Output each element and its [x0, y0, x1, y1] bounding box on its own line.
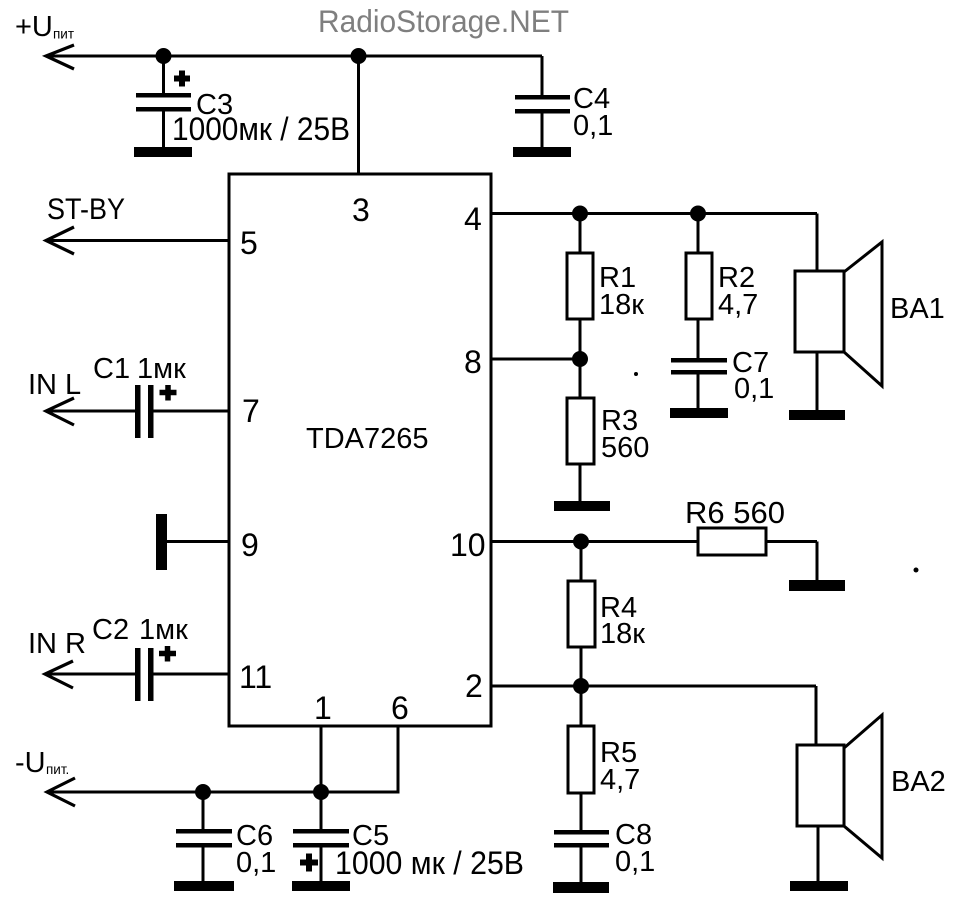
node junction dot C6 [195, 784, 211, 800]
ground C3 [134, 147, 192, 157]
svg-text:6: 6 [391, 690, 409, 726]
svg-text:1000 мк / 25В: 1000 мк / 25В [335, 845, 524, 881]
wire pin 1 vertical [320, 726, 323, 792]
node junction dot pin3 [351, 48, 367, 64]
svg-text:BA1: BA1 [890, 293, 945, 325]
wire pin 8 [491, 358, 580, 361]
speaker BA1 [795, 242, 882, 410]
arrow ST-BY [46, 227, 74, 254]
op-amp U1 TDA7265 body [229, 174, 491, 726]
svg-text:-U: -U [15, 747, 46, 779]
svg-text:R6 560: R6 560 [685, 495, 785, 530]
svg-text:C1: C1 [93, 353, 130, 385]
capacitor C5 [293, 792, 349, 881]
resistor R1 [567, 214, 593, 360]
node junction dot R1 top [572, 206, 588, 222]
svg-text:4,7: 4,7 [718, 289, 758, 321]
svg-text:BA2: BA2 [891, 766, 946, 798]
ground C5 [292, 881, 350, 891]
capacitor C1 [46, 385, 229, 438]
svg-text:18к: 18к [600, 618, 645, 650]
svg-text:1000мк / 25В: 1000мк / 25В [172, 111, 350, 147]
pin 9 stub bar [156, 514, 167, 570]
resistor R6 [698, 528, 817, 580]
svg-text:0,1: 0,1 [236, 847, 276, 879]
svg-text:0,1: 0,1 [615, 846, 655, 878]
node junction dot pin1 [313, 784, 329, 800]
svg-text:10: 10 [450, 527, 486, 563]
speaker BA2 [797, 715, 882, 881]
node junction dot R2 top [690, 206, 706, 222]
ground R6 [789, 580, 845, 591]
wire bottom rail [47, 791, 400, 794]
ground C6 [174, 881, 234, 891]
wire C4 drop [541, 56, 544, 95]
svg-text:560: 560 [601, 432, 649, 464]
arrow IN R [45, 661, 73, 688]
speck dot center [634, 372, 638, 376]
capacitor C8 [554, 830, 609, 882]
svg-text:4: 4 [464, 201, 482, 237]
svg-text:C2: C2 [92, 614, 129, 646]
arrow IN L [46, 398, 74, 425]
capacitor C2 [45, 646, 229, 701]
svg-text:4,7: 4,7 [600, 764, 640, 796]
capacitor C3 [136, 56, 191, 147]
svg-text:TDA7265: TDA7265 [306, 423, 429, 455]
arrow +Upit [46, 45, 74, 69]
node junction dot C3 [156, 48, 172, 64]
ground BA1 [789, 410, 845, 420]
resistor R3 [567, 359, 594, 501]
node junction dot pin10 [573, 534, 589, 550]
svg-text:1: 1 [314, 690, 332, 726]
node -Upit label [15, 747, 69, 779]
capacitor C7 [671, 358, 727, 408]
node +Upit label [15, 11, 74, 43]
svg-text:7: 7 [242, 393, 260, 429]
wire top rail [46, 55, 542, 58]
svg-text:RadioStorage.NET: RadioStorage.NET [318, 3, 569, 39]
wire pin 3 vertical [357, 56, 360, 174]
wire pin 4 rail [491, 212, 817, 215]
svg-text:ST-BY: ST-BY [47, 193, 125, 226]
arrow -Upit [47, 778, 75, 806]
wire pin 10 rail [491, 540, 698, 543]
svg-text:9: 9 [241, 527, 259, 563]
svg-text:0,1: 0,1 [734, 373, 774, 405]
resistor R2 [686, 214, 712, 359]
resistor R5 [568, 686, 594, 830]
svg-text:8: 8 [464, 344, 482, 380]
svg-text:IN R: IN R [28, 628, 86, 660]
resistor R4 [568, 542, 595, 687]
svg-text:0,1: 0,1 [573, 110, 613, 142]
svg-text:1мк: 1мк [139, 614, 188, 646]
svg-text:+U: +U [15, 11, 53, 43]
svg-text:IN L: IN L [28, 369, 81, 401]
svg-text:2: 2 [465, 668, 483, 704]
capacitor C4 [515, 95, 570, 147]
wire pin 5 [46, 239, 229, 242]
wire pin 6 vertical [397, 726, 400, 792]
wire BA2 drop [815, 686, 818, 745]
speck dot right [914, 568, 919, 573]
ground C8 [553, 882, 609, 893]
svg-text:3: 3 [352, 192, 370, 228]
node junction dot pin8 [572, 351, 588, 367]
svg-text:пит.: пит. [46, 762, 69, 777]
ground C7 [670, 408, 728, 418]
ground BA2 [790, 881, 848, 891]
wire pin 2 rail [491, 685, 816, 688]
ground R3 [554, 501, 610, 511]
ground C4 [513, 147, 571, 157]
svg-text:1мк: 1мк [137, 353, 186, 385]
wire BA1 drop [816, 214, 819, 272]
svg-text:пит: пит [53, 27, 74, 42]
node junction dot pin2 [573, 678, 589, 694]
wire pin 9 [167, 540, 229, 543]
capacitor C6 [176, 792, 232, 881]
svg-text:5: 5 [240, 225, 258, 261]
svg-text:11: 11 [239, 659, 272, 695]
svg-text:18к: 18к [599, 289, 644, 321]
